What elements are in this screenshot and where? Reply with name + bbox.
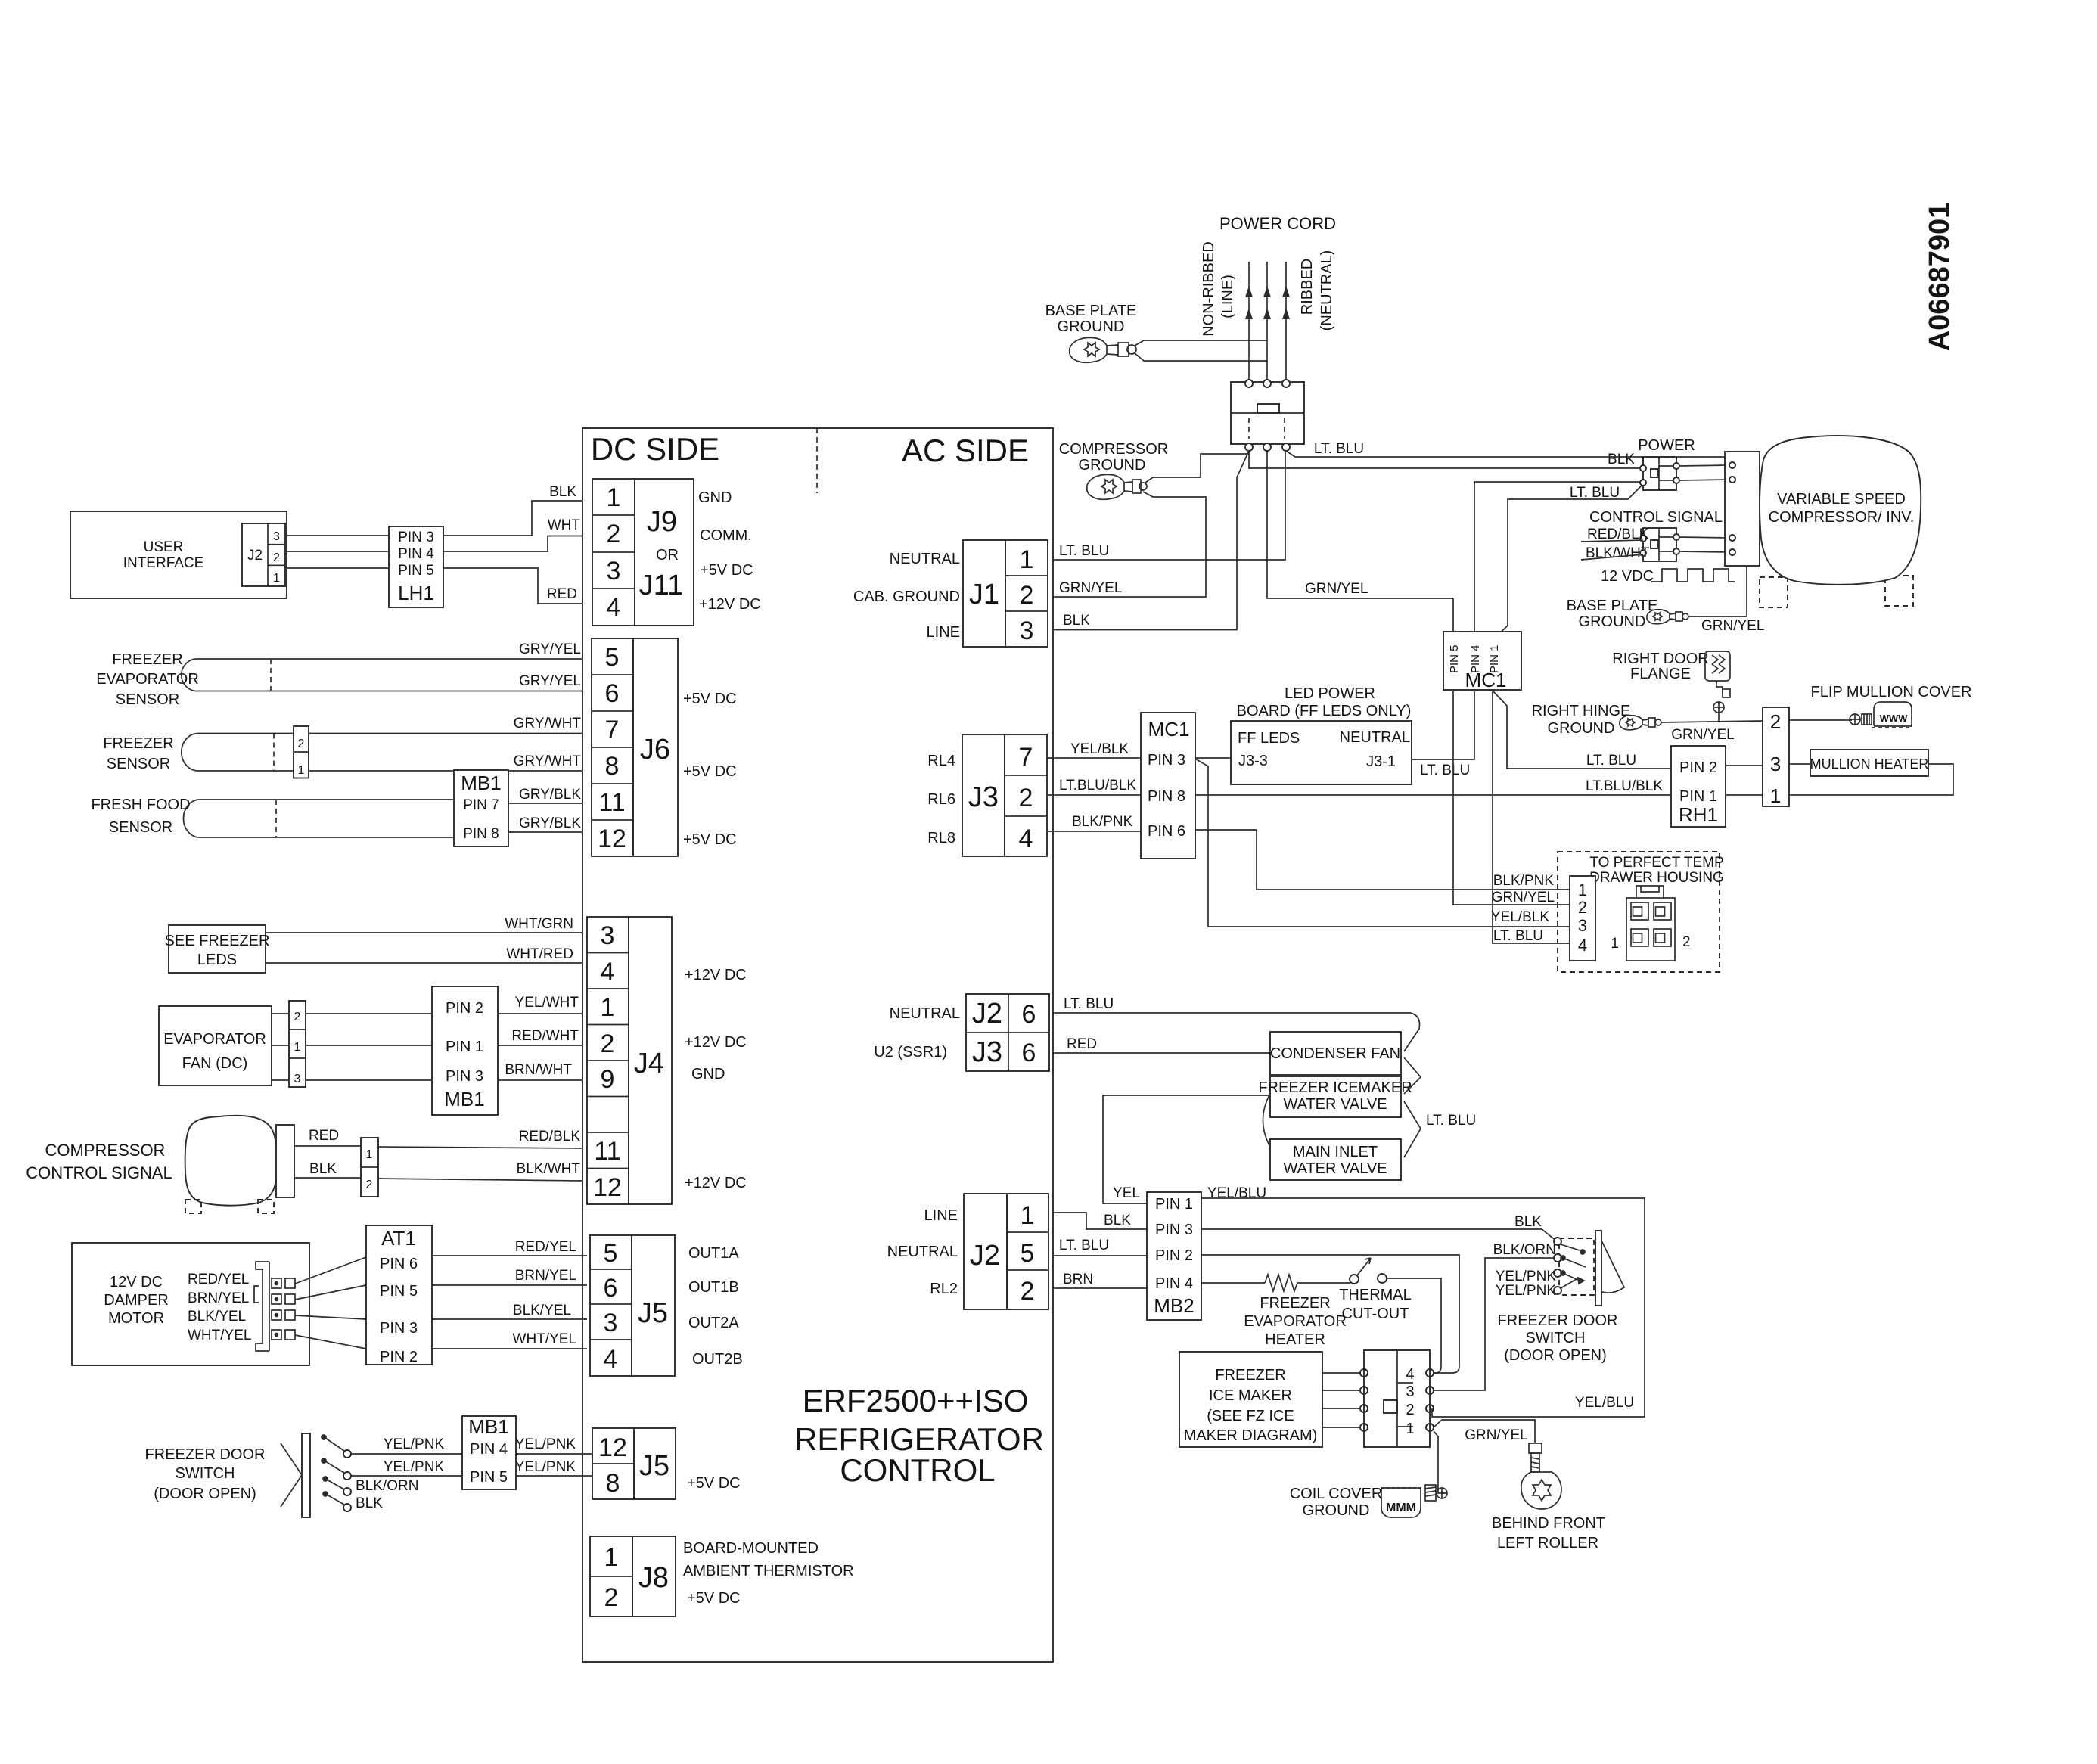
wire RED/BLK to J4 pin11 [378,1147,582,1148]
svg-text:J5: J5 [639,1450,669,1482]
svg-text:BRN/YEL: BRN/YEL [515,1268,576,1284]
svg-text:PIN 1: PIN 1 [1679,788,1717,805]
svg-text:GRY/YEL: GRY/YEL [519,673,581,689]
svg-text:LT. BLU: LT. BLU [1064,996,1114,1012]
brace valves to YEL wire [1263,1094,1271,1147]
door switch pointer chevron [281,1443,302,1507]
svg-text:COMM.: COMM. [700,527,752,544]
svg-text:NEUTRAL: NEUTRAL [1340,729,1410,746]
svg-text:PIN 5: PIN 5 [1448,644,1461,673]
svg-text:LED POWER: LED POWER [1285,685,1375,702]
fanout wires damper to AT1 [295,1257,366,1284]
svg-text:GRY/WHT: GRY/WHT [514,716,582,731]
svg-text:3: 3 [294,1073,301,1085]
svg-text:2: 2 [294,1011,301,1023]
connector J8 label box [632,1536,676,1616]
svg-text:3: 3 [1020,616,1034,645]
wire MC1 pin1 jog to RH1 pin2 LT. BLU [1493,691,1671,769]
svg-text:J3-3: J3-3 [1238,753,1268,769]
svg-text:LINE: LINE [927,624,960,641]
svg-text:CONDENSER FAN: CONDENSER FAN [1270,1045,1400,1062]
perfect temp 2x2 connector icon [1626,886,1675,961]
svg-text:1: 1 [1578,880,1587,899]
wire GRN/YEL from J1 pin2 to compressor ground [1053,492,1206,597]
svg-text:3: 3 [607,557,621,585]
svg-text:2: 2 [601,1030,615,1058]
wire YEL from valves to MB2 pin1 [1103,1095,1270,1203]
svg-text:POWER: POWER [1638,437,1695,454]
connector MC1 (AC side) box [1141,713,1195,859]
svg-text:RED/WHT: RED/WHT [511,1028,579,1044]
svg-text:4: 4 [604,1345,618,1374]
svg-text:CONTROL SIGNAL: CONTROL SIGNAL [1589,509,1723,526]
connector J2 (line/neutral/rl2) label box [964,1194,1007,1309]
svg-text:1: 1 [298,764,305,777]
wire cut-out to icemaker relay pin4 [1387,1278,1441,1373]
svg-text:YEL/BLK: YEL/BLK [1491,909,1549,925]
wire GRY/WHT to J6 pin7 [198,733,582,734]
wire GRY/WHT to J6 pin8 [198,770,582,772]
svg-text:3: 3 [1578,916,1587,935]
freezer door switch (AC) door flap [1601,1241,1624,1293]
wire relay pin1 to coil cover ground [1434,1431,1447,1493]
svg-text:CONTROL SIGNAL: CONTROL SIGNAL [26,1163,172,1182]
svg-text:FREEZER ICEMAKER: FREEZER ICEMAKER [1258,1079,1412,1096]
harness AT1 box [366,1225,432,1365]
svg-text:9: 9 [601,1065,615,1094]
svg-text:YEL/BLK: YEL/BLK [1070,741,1129,757]
base plate ground wires to power cord [1135,340,1267,346]
connector J3 pin column [1005,734,1047,856]
svg-text:SEE FREEZER: SEE FREEZER [165,933,270,949]
svg-text:RED: RED [1067,1036,1097,1052]
svg-text:12: 12 [593,1173,622,1202]
svg-text:GRY/WHT: GRY/WHT [514,753,582,769]
svg-text:BLK: BLK [1063,613,1090,629]
svg-text:+5V DC: +5V DC [687,1590,741,1607]
svg-text:J11: J11 [639,570,683,601]
svg-text:FREEZER DOOR: FREEZER DOOR [1498,1312,1618,1329]
freezer door switch (DC) terminals and levers [343,1450,351,1458]
svg-text:2: 2 [298,738,305,750]
svg-text:MC1: MC1 [1148,718,1190,741]
svg-text:BASE PLATE: BASE PLATE [1567,598,1658,614]
wire MC1 pin1 down to perfect temp pin4 LT. BLU [1493,691,1570,943]
coil cover ground symbol [1381,1485,1447,1517]
svg-text:PIN 2: PIN 2 [1679,759,1717,776]
svg-text:PIN 6: PIN 6 [1148,823,1185,840]
wire YEL/BLK from MC1 pin3 down to perfect temp pin3 [1195,759,1570,927]
thermal cut-out switch [1350,1275,1359,1284]
svg-text:FLIP MULLION COVER: FLIP MULLION COVER [1810,684,1971,700]
svg-text:SENSOR: SENSOR [109,819,172,836]
damper motor header connector [254,1262,295,1351]
svg-text:PIN 3: PIN 3 [446,1068,483,1085]
svg-text:(LINE): (LINE) [1219,275,1236,318]
connector J1 label box [963,540,1005,647]
svg-text:12: 12 [598,825,626,853]
svg-text:2: 2 [1019,784,1033,812]
power cord wire ground conductor [1266,262,1268,380]
svg-text:BLK: BLK [309,1161,337,1177]
svg-text:BLK: BLK [1608,452,1635,467]
svg-text:J5: J5 [638,1297,668,1329]
wire BLK J2 pin1 to MB2 pin3 [1053,1213,1147,1229]
svg-text:PIN 3: PIN 3 [380,1320,418,1337]
ice maker relay block connector [1364,1350,1430,1447]
svg-text:BRN/WHT: BRN/WHT [505,1062,572,1078]
svg-text:(DOOR OPEN): (DOOR OPEN) [1504,1347,1607,1364]
svg-text:YEL/PNK: YEL/PNK [1496,1269,1557,1284]
wire GRN/YEL from plug ground down to MC1 pin5 [1267,451,1453,598]
perfect temp pin strip 1-4 [1570,876,1595,961]
svg-text:3: 3 [604,1309,618,1337]
svg-text:LT. BLU: LT. BLU [1059,543,1109,559]
svg-text:2: 2 [366,1179,373,1191]
svg-text:GROUND: GROUND [1548,720,1615,737]
svg-text:BASE PLATE: BASE PLATE [1045,303,1137,319]
svg-text:CAB. GROUND: CAB. GROUND [853,589,960,605]
svg-text:4: 4 [607,593,621,622]
wire GRN/YEL hinge ground to door connector pin2 [1661,721,1763,722]
harness LH1 box with PIN 3 PIN 4 PIN 5 [389,526,443,607]
harness MB1 (fan) box [432,986,498,1115]
svg-text:4: 4 [1406,1366,1414,1383]
svg-text:GROUND: GROUND [1303,1502,1370,1519]
connector J5 label box [632,1235,675,1376]
wire BLK/YEL AT1 to J5 pin3 [432,1318,587,1320]
svg-text:RL8: RL8 [927,830,955,846]
connector J5 (lower) pin column [592,1428,634,1499]
svg-text:4: 4 [601,958,615,986]
svg-text:PIN 2: PIN 2 [446,1000,483,1017]
svg-text:7: 7 [605,716,620,744]
svg-text:1: 1 [607,483,621,512]
svg-text:OUT2A: OUT2A [688,1315,739,1331]
svg-text:RED: RED [309,1128,339,1144]
svg-text:FF LEDS: FF LEDS [1238,730,1300,747]
svg-text:4: 4 [1578,936,1587,955]
connector J1 pin column [1005,540,1048,647]
svg-text:8: 8 [605,752,620,781]
svg-text:2: 2 [1021,1277,1035,1306]
mullion door connector strip 2/3/1 [1763,707,1789,806]
svg-text:NEUTRAL: NEUTRAL [890,1005,960,1022]
svg-text:6: 6 [604,1274,618,1303]
wire MC1 pin5 down to perfect temp pin2 GRN/YEL [1453,598,1570,905]
freezer sensor inline connector 2/1 [294,726,309,778]
svg-text:3: 3 [1406,1384,1414,1400]
svg-text:RL6: RL6 [927,791,955,808]
wire LT. BLU LED board J3-1 to MC1 rotated pin4 [1412,691,1474,759]
wire BLK from J1 pin3 to power cord line [1053,451,1249,630]
svg-text:BLK/ORN: BLK/ORN [1493,1242,1556,1258]
svg-text:BLK/YEL: BLK/YEL [188,1309,246,1325]
svg-text:1: 1 [604,1543,619,1572]
svg-text:5: 5 [604,1239,618,1268]
wire MC1 pin1 up via jog to power relay [1493,484,1643,639]
connector J8 pin column [590,1536,632,1616]
svg-text:COIL COVER: COIL COVER [1290,1486,1383,1502]
svg-text:CUT-OUT: CUT-OUT [1342,1306,1409,1322]
connector J4 pin column [587,917,629,1204]
freezer ice maker box [1179,1352,1322,1447]
svg-text:SWITCH: SWITCH [176,1465,235,1482]
svg-text:YEL/PNK: YEL/PNK [515,1436,576,1452]
svg-text:PIN 3: PIN 3 [1155,1222,1193,1238]
harness MB1 box PIN7 PIN8 [454,770,508,846]
svg-text:HEATER: HEATER [1265,1331,1325,1348]
svg-text:LT.BLU/BLK: LT.BLU/BLK [1586,778,1663,794]
svg-text:+5V DC: +5V DC [683,763,737,780]
svg-text:OUT1A: OUT1A [688,1245,739,1262]
svg-text:LEFT ROLLER: LEFT ROLLER [1497,1535,1598,1551]
LED power board box [1231,721,1412,784]
wire LT. BLU from J1 pin1 to power cord neutral [1053,451,1285,560]
svg-text:MAKER DIAGRAM): MAKER DIAGRAM) [1184,1427,1318,1444]
svg-text:RED: RED [547,586,577,602]
svg-text:OR: OR [656,547,679,564]
wire YEL/WHT MB1 to J4 pin1 [498,1013,582,1014]
svg-text:LT. BLU: LT. BLU [1059,1238,1109,1253]
svg-text:3: 3 [601,921,615,950]
svg-text:COMPRESSOR: COMPRESSOR [1059,441,1168,458]
variable speed compressor/inverter body [1760,436,1921,585]
wire BRN/WHT MB1 to J4 pin9 [498,1079,582,1081]
right door flange symbol [1705,651,1730,713]
svg-text:VARIABLE SPEED: VARIABLE SPEED [1777,491,1906,508]
svg-text:LEDS: LEDS [197,952,237,968]
svg-text:+12V DC: +12V DC [685,1175,747,1191]
wire WHT/GRN to J4 pin3 [266,932,582,933]
chevron icemaker valve to main valve with LT. BLU label [1404,1101,1421,1157]
wire YEL/BLU loop MB2 pin1 to icemaker relay pin2 [1201,1198,1645,1417]
connector J2 on user interface [242,523,285,586]
wire GRY/YEL to J6 pin5 [195,658,582,660]
svg-text:PIN 5: PIN 5 [470,1469,508,1486]
wire RED from J3-6 to condenser fan [1053,1052,1270,1054]
svg-text:+12V DC: +12V DC [685,1034,747,1051]
see freezer leds box [169,925,266,973]
svg-text:5: 5 [1021,1239,1035,1268]
svg-text:2: 2 [1406,1402,1414,1418]
mullion heater return loop [1789,764,1953,795]
svg-text:YEL/PNK: YEL/PNK [1496,1283,1557,1299]
svg-text:WATER VALVE: WATER VALVE [1283,1160,1387,1177]
main control board outline ERF2500 [582,428,1053,1662]
svg-text:WHT/RED: WHT/RED [506,946,573,962]
freezer evaporator heater resistor [1265,1275,1350,1291]
svg-text:BLK: BLK [1514,1214,1542,1230]
svg-text:PIN 1: PIN 1 [446,1039,483,1055]
svg-text:PIN 7: PIN 7 [463,797,499,813]
svg-text:YEL/PNK: YEL/PNK [384,1459,445,1475]
connector J5 (lower) label box [634,1428,676,1499]
connector MC1 pass-through (rotated) [1443,632,1521,690]
12v dc damper motor box [72,1243,309,1365]
svg-text:1: 1 [1611,936,1619,952]
svg-text:12: 12 [598,1433,627,1462]
connector J3 label box [962,734,1005,856]
compressor body (dc control) [185,1116,278,1206]
svg-text:FREEZER: FREEZER [112,651,182,668]
svg-text:PIN 2: PIN 2 [380,1349,418,1365]
svg-text:GND: GND [698,489,732,506]
svg-text:GRN/YEL: GRN/YEL [1465,1427,1527,1443]
svg-text:BOARD-MOUNTED: BOARD-MOUNTED [683,1540,819,1557]
svg-text:RED/BLK: RED/BLK [519,1129,581,1144]
variable speed compressor/inverter feet [1760,577,1788,607]
base plate ground lug (inverter) [1647,610,1688,624]
svg-text:4: 4 [1019,825,1033,853]
svg-text:2: 2 [1020,581,1034,610]
svg-text:YEL/PNK: YEL/PNK [384,1436,445,1452]
svg-text:AC SIDE: AC SIDE [902,433,1029,468]
svg-text:BRN: BRN [1063,1272,1093,1287]
right hinge ground lug [1620,716,1661,730]
svg-text:REFRIGERATOR: REFRIGERATOR [794,1421,1044,1457]
svg-text:(DOOR OPEN): (DOOR OPEN) [154,1486,256,1502]
wire RED/WHT MB1 to J4 pin2 [498,1045,582,1046]
svg-text:2: 2 [273,551,280,564]
svg-text:NEUTRAL: NEUTRAL [890,551,960,567]
svg-text:EVAPORATOR: EVAPORATOR [96,671,199,688]
compressor ground lug [1087,474,1147,499]
svg-text:RL2: RL2 [930,1281,958,1297]
svg-text:GROUND: GROUND [1579,613,1646,630]
wire GRY/BLK to J6 pin12 [508,831,582,833]
wire GRN/YEL relay pin1 to roller ground [1434,1420,1535,1443]
svg-text:PIN 5: PIN 5 [398,563,434,579]
svg-text:3: 3 [1770,753,1781,775]
svg-text:GRN/YEL: GRN/YEL [1492,890,1555,905]
svg-text:YEL/WHT: YEL/WHT [515,995,579,1011]
svg-text:1: 1 [1021,1201,1035,1230]
freezer sensor probe [182,734,198,772]
svg-text:WHT: WHT [548,517,581,533]
svg-text:OUT2B: OUT2B [692,1351,743,1368]
connector J9 OR J11 label box [635,479,694,626]
svg-text:+5V DC: +5V DC [683,691,737,707]
svg-text:RH1: RH1 [1679,803,1718,826]
wire BRN MB2 pin4 to freezer evaporator heater [1201,1282,1265,1284]
svg-text:BLK/PNK: BLK/PNK [1072,814,1133,830]
svg-text:NON-RIBBED: NON-RIBBED [1201,241,1217,337]
svg-text:LINE: LINE [924,1207,958,1224]
svg-text:USER: USER [144,539,184,555]
power cord arrowheads [1245,286,1290,319]
wire RED/YEL AT1 to J5 pin5 [432,1255,587,1256]
svg-text:GRN/YEL: GRN/YEL [1305,581,1368,597]
connector J6 label box [633,638,678,856]
svg-text:ERF2500++ISO: ERF2500++ISO [803,1383,1029,1418]
svg-text:LT. BLU: LT. BLU [1426,1113,1476,1129]
svg-text:1: 1 [1770,784,1781,807]
wire LT. BLU from plug to compressor inverter [1286,451,1725,457]
wire BLK to connector [294,1177,361,1179]
svg-text:PIN 1: PIN 1 [1155,1196,1193,1213]
wire WHT/YEL AT1 to J5 pin4 [432,1348,587,1349]
svg-text:J2: J2 [247,548,263,564]
svg-text:J8: J8 [638,1562,669,1594]
wire BRN/YEL AT1 to J5 pin6 [432,1284,587,1286]
svg-text:WHT/YEL: WHT/YEL [188,1328,251,1343]
svg-text:PIN 2: PIN 2 [1155,1247,1193,1264]
svg-text:RED/YEL: RED/YEL [188,1272,249,1287]
compressor ground wire to power cord line [1145,454,1250,483]
wire WHT from user interface pin2 to J9 pin2 [287,536,582,552]
svg-text:DC SIDE: DC SIDE [591,431,719,467]
svg-text:RIGHT DOOR: RIGHT DOOR [1612,651,1708,667]
svg-text:PIN 8: PIN 8 [1148,788,1185,805]
svg-text:MOTOR: MOTOR [108,1310,164,1327]
wire BLK from plug to compressor power relay [1249,451,1643,468]
svg-text:+12V DC: +12V DC [699,596,761,613]
svg-text:1: 1 [1020,545,1034,574]
wire MC1 pin4 up to power relay (LT.BLU) [1474,482,1643,639]
svg-text:J3: J3 [972,1036,1002,1068]
connector J9/J11 pin column [592,479,635,626]
svg-text:7: 7 [1019,743,1033,772]
svg-text:FRESH FOOD: FRESH FOOD [91,797,190,813]
compressor feet [185,1200,201,1213]
svg-text:DAMPER: DAMPER [104,1292,169,1309]
svg-text:PIN 3: PIN 3 [1148,752,1185,769]
user interface box [70,511,287,598]
freezer door switch (AC) dashed body [1559,1238,1594,1295]
svg-text:AMBIENT THERMISTOR: AMBIENT THERMISTOR [683,1563,854,1579]
svg-text:YEL: YEL [1113,1185,1140,1201]
svg-text:PIN 8: PIN 8 [463,826,499,842]
svg-text:1: 1 [366,1148,373,1161]
wire RED to connector [294,1145,361,1147]
freezer evaporator sensor probe [182,659,195,691]
wire LT.BLU/BLK long from MC1 pin8 to RH1 pin1 [1195,794,1671,796]
svg-text:J9: J9 [647,506,677,538]
svg-text:MB1: MB1 [461,772,501,794]
svg-text:FAN (DC): FAN (DC) [182,1055,248,1072]
svg-text:MB2: MB2 [1154,1294,1194,1317]
freezer icemaker water valve box [1270,1076,1401,1117]
svg-text:FLANGE: FLANGE [1630,666,1691,682]
svg-text:6: 6 [1022,1039,1036,1067]
svg-text:GRN/YEL: GRN/YEL [1059,580,1122,596]
svg-text:2: 2 [1578,898,1587,917]
svg-text:GRY/YEL: GRY/YEL [519,641,581,657]
svg-text:WATER VALVE: WATER VALVE [1283,1096,1387,1113]
wire BLK/WHT to J4 pin12 [378,1179,582,1181]
svg-text:GROUND: GROUND [1058,318,1125,335]
wire LT. BLU J2 pin5 to MB2 pin2 [1053,1255,1147,1256]
svg-text:11: 11 [594,1137,620,1166]
svg-text:1: 1 [1406,1421,1414,1437]
svg-text:YEL/PNK: YEL/PNK [515,1459,576,1475]
svg-text:ICE MAKER: ICE MAKER [1209,1387,1292,1404]
svg-text:CONTROL: CONTROL [840,1452,995,1488]
svg-text:+5V DC: +5V DC [683,831,737,848]
svg-text:(SEE FZ ICE: (SEE FZ ICE [1207,1408,1294,1424]
chevron fan to icemaker valve [1404,1057,1421,1094]
svg-text:SENSOR: SENSOR [116,691,179,708]
svg-text:J6: J6 [640,734,670,766]
wire YEL/PNK MB1 to J5 pin8 [516,1475,592,1477]
compressor signal connector 1/2 [361,1138,378,1197]
wires fan to connector [272,1013,289,1014]
connector J2 pin column [1007,1194,1048,1309]
svg-text:MB1: MB1 [444,1088,484,1110]
svg-text:WHT/GRN: WHT/GRN [505,916,573,932]
svg-text:BLK: BLK [1104,1213,1131,1228]
